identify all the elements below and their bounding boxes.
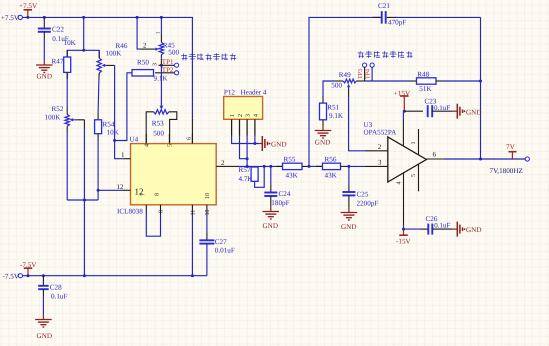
IC U4 ICL8038 body	[131, 144, 217, 205]
wire R54 bottom / U4 pin12 net	[97, 134, 99, 141]
capacitor C25	[348, 166, 350, 185]
svg-text:GND: GND	[263, 222, 278, 230]
wire feedback C21 net	[309, 17, 381, 166]
U4 pin 5	[168, 134, 170, 144]
svg-text:4: 4	[396, 182, 402, 185]
wire junction C24 tap	[269, 165, 272, 168]
svg-text:R52: R52	[52, 105, 64, 113]
svg-text:2: 2	[238, 114, 244, 117]
wire R52 bottom	[66, 126, 68, 133]
svg-text:500: 500	[153, 129, 164, 137]
svg-text:R55: R55	[284, 156, 296, 164]
svg-text:-7.5V: -7.5V	[3, 273, 20, 281]
svg-text:GND: GND	[341, 223, 356, 231]
ground sideways C26	[453, 228, 458, 230]
svg-text:1: 1	[121, 151, 125, 159]
U4 pin 11	[191, 205, 193, 215]
svg-text:4: 4	[253, 114, 259, 117]
svg-text:10K: 10K	[107, 129, 120, 137]
test point TP4	[370, 63, 374, 67]
svg-text:+7.5V: +7.5V	[1, 14, 20, 22]
wire U4 pin2 to R55	[224, 165, 240, 167]
P12 pin 4	[254, 119, 256, 136]
svg-text:4: 4	[145, 144, 151, 147]
wire U4 pin 10 to C27	[206, 215, 208, 234]
svg-text:1: 1	[156, 31, 162, 34]
svg-text:R54: R54	[103, 121, 115, 129]
wire U4 pin 11 to bottom rail	[191, 215, 193, 276]
svg-text:51K: 51K	[419, 85, 432, 93]
U4 pin 10	[206, 205, 208, 215]
U3 pin 7 +15V	[402, 120, 404, 147]
svg-text:43K: 43K	[286, 172, 299, 180]
capacitor C22	[43, 17, 45, 28]
wire R52 wiper drop	[83, 128, 85, 276]
capacitor C23	[427, 105, 429, 117]
wire R45 wiper link	[137, 17, 141, 49]
ground sideways header	[260, 143, 263, 145]
wire R56 to opamp pin3	[341, 165, 348, 167]
svg-text:10K: 10K	[64, 39, 77, 47]
capacitor C26	[427, 224, 429, 235]
svg-text:3: 3	[246, 114, 252, 117]
svg-text:TP4: TP4	[366, 69, 372, 79]
wire output to port	[444, 158, 525, 160]
wire U4 pins 7-8 loop	[146, 215, 160, 237]
ground below C25	[348, 207, 350, 213]
ground below C28	[42, 314, 44, 320]
U4 pin 8	[160, 205, 162, 215]
svg-text:GND: GND	[466, 226, 481, 234]
svg-text:R47: R47	[52, 58, 64, 66]
svg-text:TP3: TP3	[358, 69, 364, 79]
svg-text:GND: GND	[315, 138, 330, 146]
svg-text:5: 5	[411, 174, 417, 177]
port +7.5V top-left	[18, 15, 22, 19]
U3 pin 4 -15V	[403, 173, 405, 225]
wire P12 pin4 drop	[254, 136, 256, 144]
svg-text:C28: C28	[50, 283, 62, 291]
U3 pin 1	[418, 129, 420, 155]
P12 pin 1	[231, 119, 233, 136]
wire R48 to feedback drop	[436, 80, 444, 82]
svg-text:470pF: 470pF	[388, 19, 406, 27]
svg-text:100K: 100K	[45, 114, 62, 122]
svg-text:10: 10	[205, 210, 211, 216]
wire P12 pin2 jog to signal	[240, 136, 248, 159]
wire TP1 column to R53 wiper	[160, 65, 162, 103]
ground below R51	[322, 120, 324, 125]
wire feedback right drop	[480, 17, 482, 159]
svg-text:R53: R53	[152, 119, 164, 127]
wire P12 pin1 to GND	[232, 136, 260, 144]
svg-text:8: 8	[159, 210, 165, 213]
ground below C24	[270, 206, 272, 212]
svg-text:R48: R48	[417, 70, 429, 78]
svg-text:-7.5V: -7.5V	[20, 261, 37, 269]
U4 pin 7	[145, 205, 147, 215]
wire P12 pin3 drop to signal	[246, 136, 248, 167]
test point TP1	[159, 64, 175, 66]
svg-text:6: 6	[433, 150, 437, 158]
svg-text:ICL8038: ICL8038	[117, 208, 143, 216]
svg-text:R49: R49	[339, 71, 351, 79]
wire bottom -7.5V rail	[23, 275, 207, 277]
port 7V output	[525, 157, 529, 161]
wire R53 left lead to U4 pin4	[146, 112, 153, 144]
svg-text:0.1uF: 0.1uF	[434, 104, 450, 112]
svg-text:0.1uF: 0.1uF	[51, 292, 67, 300]
U4 pin 4	[145, 134, 147, 144]
ground sideways C23	[453, 110, 458, 112]
capacitor C23 wire	[404, 110, 423, 112]
svg-text:C21: C21	[378, 2, 390, 10]
wire R53 right lead to U4 pin5	[169, 112, 177, 144]
power -15V	[399, 234, 408, 236]
svg-text:TP2: TP2	[162, 66, 174, 74]
ground below C22	[43, 60, 45, 66]
svg-text:GND: GND	[466, 108, 481, 116]
svg-text:+7.5V: +7.5V	[19, 2, 38, 10]
svg-text:3: 3	[153, 63, 159, 66]
svg-text:2: 2	[143, 42, 147, 50]
svg-text:9.1K: 9.1K	[329, 112, 344, 120]
wire R49 right to R48	[357, 80, 365, 82]
svg-text:7V: 7V	[506, 143, 516, 151]
svg-text:3: 3	[378, 159, 382, 167]
connector P12 Header 4	[224, 97, 263, 120]
svg-text:R50: R50	[137, 58, 149, 66]
svg-text:7: 7	[141, 193, 147, 196]
P12 pin 3	[246, 119, 248, 136]
svg-text:2200pF: 2200pF	[357, 199, 379, 207]
svg-text:C22: C22	[52, 25, 64, 33]
svg-text:10: 10	[205, 193, 211, 199]
text fine-tune potentiometer note right	[358, 51, 364, 58]
U4 pin 12	[123, 189, 131, 191]
test point TP3	[363, 63, 367, 67]
svg-text:500: 500	[168, 48, 179, 56]
svg-text:500: 500	[331, 82, 342, 90]
svg-text:GND: GND	[37, 332, 52, 340]
svg-text:7V,1800HZ: 7V,1800HZ	[490, 167, 523, 175]
svg-text:TP1: TP1	[162, 58, 174, 66]
svg-text:OPA552PA: OPA552PA	[364, 128, 398, 136]
svg-text:8: 8	[155, 193, 161, 196]
capacitor C21	[373, 16, 381, 18]
svg-text:0.01uF: 0.01uF	[215, 247, 235, 255]
U4 pin 1	[123, 158, 131, 160]
svg-text:43K: 43K	[325, 172, 338, 180]
svg-text:-15V: -15V	[396, 238, 412, 246]
svg-text:180pF: 180pF	[271, 199, 289, 207]
svg-text:R56: R56	[325, 156, 337, 164]
U3 pin 5	[418, 164, 420, 191]
svg-text:2: 2	[378, 143, 382, 151]
wire top +7.5V rail	[23, 17, 193, 118]
svg-text:12: 12	[117, 183, 125, 191]
power bar +7.5V	[24, 9, 33, 11]
svg-text:1: 1	[230, 114, 236, 117]
capacitor C26 wire	[404, 228, 422, 230]
wire R55 to R56	[302, 165, 310, 167]
test point TP2	[155, 72, 175, 74]
text fine-tune potentiometer note left	[181, 54, 187, 61]
port -7.5V bottom-left	[18, 274, 22, 278]
svg-text:0.1uF: 0.1uF	[434, 222, 450, 230]
svg-text:1: 1	[411, 142, 417, 145]
wire R46 wiper to U4 pin1	[115, 65, 123, 158]
wire R45 bottom to TP1	[160, 55, 162, 59]
capacitor C27	[199, 239, 214, 241]
svg-text:P12: P12	[224, 89, 236, 97]
capacitor C28	[42, 274, 45, 277]
wire node row y200	[67, 199, 98, 201]
U4 pin 2 output	[216, 165, 223, 167]
svg-text:C25: C25	[357, 191, 369, 199]
wire C27 to bottom rail	[206, 244, 208, 276]
wire R46 to R54	[97, 80, 100, 114]
svg-text:C27: C27	[215, 238, 227, 246]
wire R49 left to R51	[335, 80, 343, 82]
svg-text:6: 6	[187, 137, 193, 140]
svg-text:GND: GND	[271, 141, 286, 149]
wire R50 left branch	[115, 73, 132, 141]
svg-text:5: 5	[168, 144, 174, 147]
wire R49 wiper to opamp pin2	[349, 97, 365, 151]
power bar -7.5V	[24, 267, 33, 269]
svg-text:100K: 100K	[106, 49, 123, 57]
wire R57 bottom loop	[255, 166, 265, 187]
svg-text:2: 2	[221, 159, 225, 167]
capacitor C24	[264, 192, 277, 194]
P12 pin 2	[239, 119, 241, 136]
wire R47/R46 top link	[67, 50, 99, 58]
wire R47 to R52	[66, 72, 68, 79]
svg-text:R51: R51	[327, 103, 339, 111]
svg-text:U4: U4	[130, 136, 139, 144]
junction dots on top rail	[26, 16, 29, 19]
svg-text:11: 11	[191, 210, 197, 216]
svg-text:R57: R57	[239, 166, 251, 174]
svg-text:C24: C24	[279, 190, 291, 198]
U3 pin 6 output	[426, 158, 444, 160]
U4 pin 6	[191, 134, 193, 144]
svg-text:GND: GND	[37, 72, 52, 80]
svg-text:Header 4: Header 4	[241, 89, 267, 97]
